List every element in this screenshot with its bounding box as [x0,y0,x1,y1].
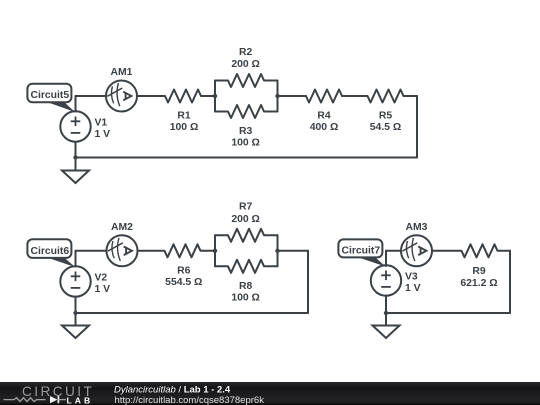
svg-text:V1: V1 [95,117,108,128]
wire bottom branch left stub [215,111,228,113]
wire V2 bottom to node [75,297,77,314]
svg-text:R9: R9 [472,266,486,277]
svg-text:Circuit7: Circuit7 [341,245,380,256]
resistor R9 [462,244,498,257]
svg-text:100 Ω: 100 Ω [170,122,199,133]
wire bottom branch 2 right stub [264,265,278,267]
voltage source V1 [60,111,90,141]
wire AM3 to R9 [432,250,462,252]
wire parallel box left vertical [214,81,216,112]
wire corner to AM3 [386,250,401,252]
svg-text:R6: R6 [177,266,191,277]
wire top branch right stub [264,80,278,82]
svg-text:400 Ω: 400 Ω [310,122,339,133]
wire parallel box 2 right vertical [277,235,279,266]
svg-text:R1: R1 [177,110,191,121]
label Circuit6 [27,239,75,267]
resistor R3 [228,105,264,118]
wire AM1 to R1 [137,95,165,97]
wire V1 top to corner [75,96,77,112]
wire V2 top to corner [75,251,77,267]
svg-text:AM2: AM2 [111,222,133,233]
wire top branch 2 left stub [215,234,228,236]
wire V3 top to corner [385,251,387,266]
resistor R1 [165,90,201,103]
resistor R2 [228,74,264,87]
svg-text:AM1: AM1 [111,67,133,78]
svg-text:54.5 Ω: 54.5 Ω [370,122,401,133]
ammeter AM2 [107,235,138,266]
resistor R5 [368,90,404,103]
wire R1 to node [201,95,215,97]
wire node to right edge 2 [278,250,309,252]
wire bottom branch 2 left stub [215,265,228,267]
footer logo wire and diode [4,398,46,402]
wire bottom return 3 [386,312,510,314]
svg-text:R5: R5 [379,110,393,121]
node junction circuit1 right [275,94,279,98]
svg-text:http://circuitlab.com/cqse8378: http://circuitlab.com/cqse8378epr6k [115,395,265,405]
wire bottom branch right stub [264,111,278,113]
wire bottom return 2 [76,312,309,314]
ammeter AM3 [401,235,432,266]
wire parallel box right vertical [277,81,279,112]
node junction circuit2 left [213,249,217,253]
wire V1 bottom to node [75,142,77,158]
ground circuit2 [62,313,89,338]
svg-text:V2: V2 [95,272,108,283]
svg-text:R3: R3 [239,126,253,137]
label Circuit7 [338,239,385,266]
svg-text:200 Ω: 200 Ω [231,214,260,225]
wire right edge vertical [416,96,418,158]
svg-text:200 Ω: 200 Ω [231,59,260,70]
svg-text:1 V: 1 V [405,283,421,294]
svg-text:1 V: 1 V [95,284,111,295]
node junction circuit2 right [275,249,279,253]
svg-text:R8: R8 [239,281,253,292]
resistor R8 [228,260,264,273]
svg-text:100 Ω: 100 Ω [231,137,260,148]
voltage source V3 [371,265,401,295]
wire R9 to right edge [498,250,511,252]
wire parallel box 2 left vertical [214,235,216,266]
svg-text:R2: R2 [239,47,253,58]
svg-text:R7: R7 [239,201,253,212]
node junction circuit2 ground [73,311,77,315]
svg-text:100 Ω: 100 Ω [231,292,260,303]
wire V3 bottom to node [385,296,387,314]
svg-text:554.5 Ω: 554.5 Ω [165,277,202,288]
footer bar [0,382,540,405]
resistor R7 [228,229,264,242]
wire top branch left stub [215,80,228,82]
svg-text:V3: V3 [405,272,418,283]
wire R5 to right edge [404,95,418,97]
label Circuit5 [27,84,75,112]
node junction circuit1 left [213,94,217,98]
wire corner to AM1 [76,95,107,97]
wire right edge vertical 2 [307,251,309,313]
wire right edge vertical 3 [509,251,511,313]
resistor R4 [306,90,342,103]
resistor R6 [165,244,201,257]
wire top branch 2 right stub [264,234,278,236]
svg-text:Dylancircuitlab / Lab 1 - 2.4: Dylancircuitlab / Lab 1 - 2.4 [114,385,231,396]
svg-text:1 V: 1 V [95,129,111,140]
wire R6 to node [201,250,216,252]
ammeter AM1 [106,81,137,112]
ground circuit1 [62,158,89,184]
wire R4 to R5 [342,95,368,97]
svg-text:621.2 Ω: 621.2 Ω [460,278,497,289]
wire AM2 to R6 [138,250,165,252]
svg-text:LAB: LAB [67,395,94,405]
svg-text:Circuit6: Circuit6 [30,246,69,257]
svg-text:AM3: AM3 [406,222,428,233]
svg-text:R4: R4 [317,110,331,121]
voltage source V2 [60,266,90,296]
wire bottom return [76,157,418,159]
wire node to R4 [278,95,307,97]
node junction circuit1 ground [73,155,77,159]
ground circuit3 [373,313,400,338]
wire corner to AM2 [76,250,107,252]
node junction circuit3 ground [384,311,388,315]
svg-text:Circuit5: Circuit5 [30,90,69,101]
